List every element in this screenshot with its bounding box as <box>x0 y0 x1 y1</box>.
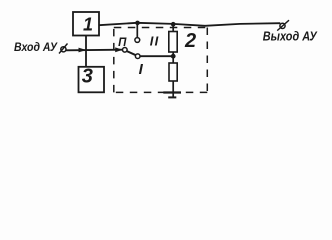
arrowhead on input line at junction <box>79 48 87 53</box>
arrowhead before switch pole <box>115 47 122 52</box>
svg-text:3: 3 <box>82 66 93 88</box>
svg-text:Выход АУ: Выход АУ <box>263 30 318 44</box>
wire: input line from input terminal to switch pole <box>66 49 123 52</box>
wire: output line junction down to resistor R1 <box>172 24 174 31</box>
node: divider tap junction <box>171 54 176 59</box>
node: junction on output line above contact II <box>135 21 140 26</box>
switch arm (pole to contact I) <box>127 51 136 55</box>
block 3 <box>79 67 105 93</box>
dashed enclosure (switchable divider unit) <box>114 28 208 93</box>
contact II <box>135 38 140 43</box>
switch П pole contact <box>123 48 128 53</box>
resistor R1 <box>169 32 177 53</box>
svg-text:П: П <box>118 37 127 49</box>
ground <box>163 91 181 93</box>
svg-text:Вход АУ: Вход АУ <box>14 40 58 54</box>
svg-text:2: 2 <box>184 30 196 52</box>
node: junction on output line above divider <box>171 22 176 27</box>
contact I <box>135 54 140 59</box>
block 1 <box>73 12 99 36</box>
resistor R2 <box>169 63 177 81</box>
wire: contact II riser to output line <box>136 23 138 38</box>
wire: contact I to divider tap <box>140 55 173 57</box>
wire: R1 bottom to tap node <box>172 52 174 63</box>
wire: output line from block 1 to output terminal <box>99 23 280 26</box>
output terminal <box>280 23 285 28</box>
svg-text:II: II <box>150 33 159 48</box>
wire: R2 bottom to ground <box>172 81 174 97</box>
input terminal <box>61 47 66 52</box>
svg-text:1: 1 <box>83 14 93 34</box>
wire: vertical link block1 - input line - block3 <box>85 35 87 67</box>
